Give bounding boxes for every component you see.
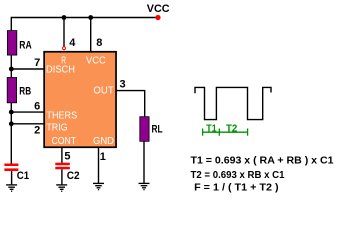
svg-text:CONT: CONT: [52, 136, 76, 147]
svg-text:GND: GND: [93, 136, 114, 147]
resistor RB: [7, 78, 16, 103]
svg-text:F = 1 / ( T1 + T2 ): F = 1 / ( T1 + T2 ): [194, 183, 279, 194]
svg-text:2: 2: [34, 124, 40, 136]
svg-text:C1: C1: [17, 170, 29, 182]
ground under RL: [139, 183, 150, 189]
output waveform trace: [195, 87, 271, 119]
svg-text:VCC: VCC: [86, 56, 106, 67]
svg-text:TRIG: TRIG: [46, 123, 67, 134]
op IC 555 timer body U1: [44, 52, 116, 148]
ground under C2: [56, 185, 67, 191]
pin 4 reset bubble: [63, 47, 66, 50]
svg-text:1: 1: [100, 151, 106, 163]
svg-text:RB: RB: [19, 86, 31, 98]
svg-text:T2 = 0.693 x RB x C1: T2 = 0.693 x RB x C1: [191, 170, 285, 181]
wire RB down to C1: [10, 103, 12, 164]
svg-text:8: 8: [96, 37, 102, 49]
svg-text:3: 3: [120, 79, 126, 91]
wire pin 8 drop from rail: [90, 18, 92, 52]
resistor RL: [140, 117, 149, 142]
svg-text:7: 7: [34, 57, 40, 69]
wire RL to ground: [143, 141, 145, 183]
svg-text:RA: RA: [19, 39, 31, 51]
svg-text:RL: RL: [152, 123, 163, 135]
wire VCC top rail and left drop to RA: [11, 18, 158, 32]
ground under pin 1: [93, 183, 104, 189]
svg-text:DISCH: DISCH: [46, 65, 75, 76]
wire pin 4 drop from rail: [63, 18, 65, 47]
svg-text:T1: T1: [206, 123, 217, 134]
svg-text:T1 = 0.693 x ( RA + RB ) x C1: T1 = 0.693 x ( RA + RB ) x C1: [191, 156, 334, 167]
svg-text:OUT: OUT: [93, 86, 113, 97]
wire C1 to ground: [11, 171, 13, 184]
wire pin 6 to IC: [11, 111, 44, 113]
svg-text:VCC: VCC: [147, 3, 170, 15]
capacitor C2: [55, 163, 70, 170]
node junction pin6 branch: [9, 110, 14, 115]
node junction pin8 on rail: [88, 15, 93, 20]
ground under C1: [6, 185, 17, 191]
node junction pin7 branch: [9, 67, 14, 72]
node junction pin4 on rail: [62, 15, 67, 20]
svg-text:6: 6: [34, 101, 40, 113]
wire pin 3 OUT to RL: [117, 91, 145, 117]
wire pin 5 to C2: [61, 148, 63, 164]
resistor RA: [7, 31, 16, 55]
svg-text:C2: C2: [67, 170, 80, 182]
svg-text:5: 5: [64, 151, 70, 163]
svg-text:T2: T2: [226, 123, 238, 134]
wire pin 2 to IC: [11, 123, 44, 125]
timing dimension line: [203, 129, 248, 136]
capacitor C1: [4, 164, 18, 172]
wire pin 1 GND to ground: [98, 148, 100, 184]
svg-text:4: 4: [69, 37, 76, 49]
node junction pin2 branch: [9, 121, 14, 126]
wire RA to RB: [10, 55, 12, 77]
node VCC terminal dot: [155, 15, 160, 20]
wire C2 to ground: [61, 169, 63, 184]
svg-text:THERS: THERS: [46, 110, 77, 121]
wire pin 7 to IC: [11, 68, 44, 70]
